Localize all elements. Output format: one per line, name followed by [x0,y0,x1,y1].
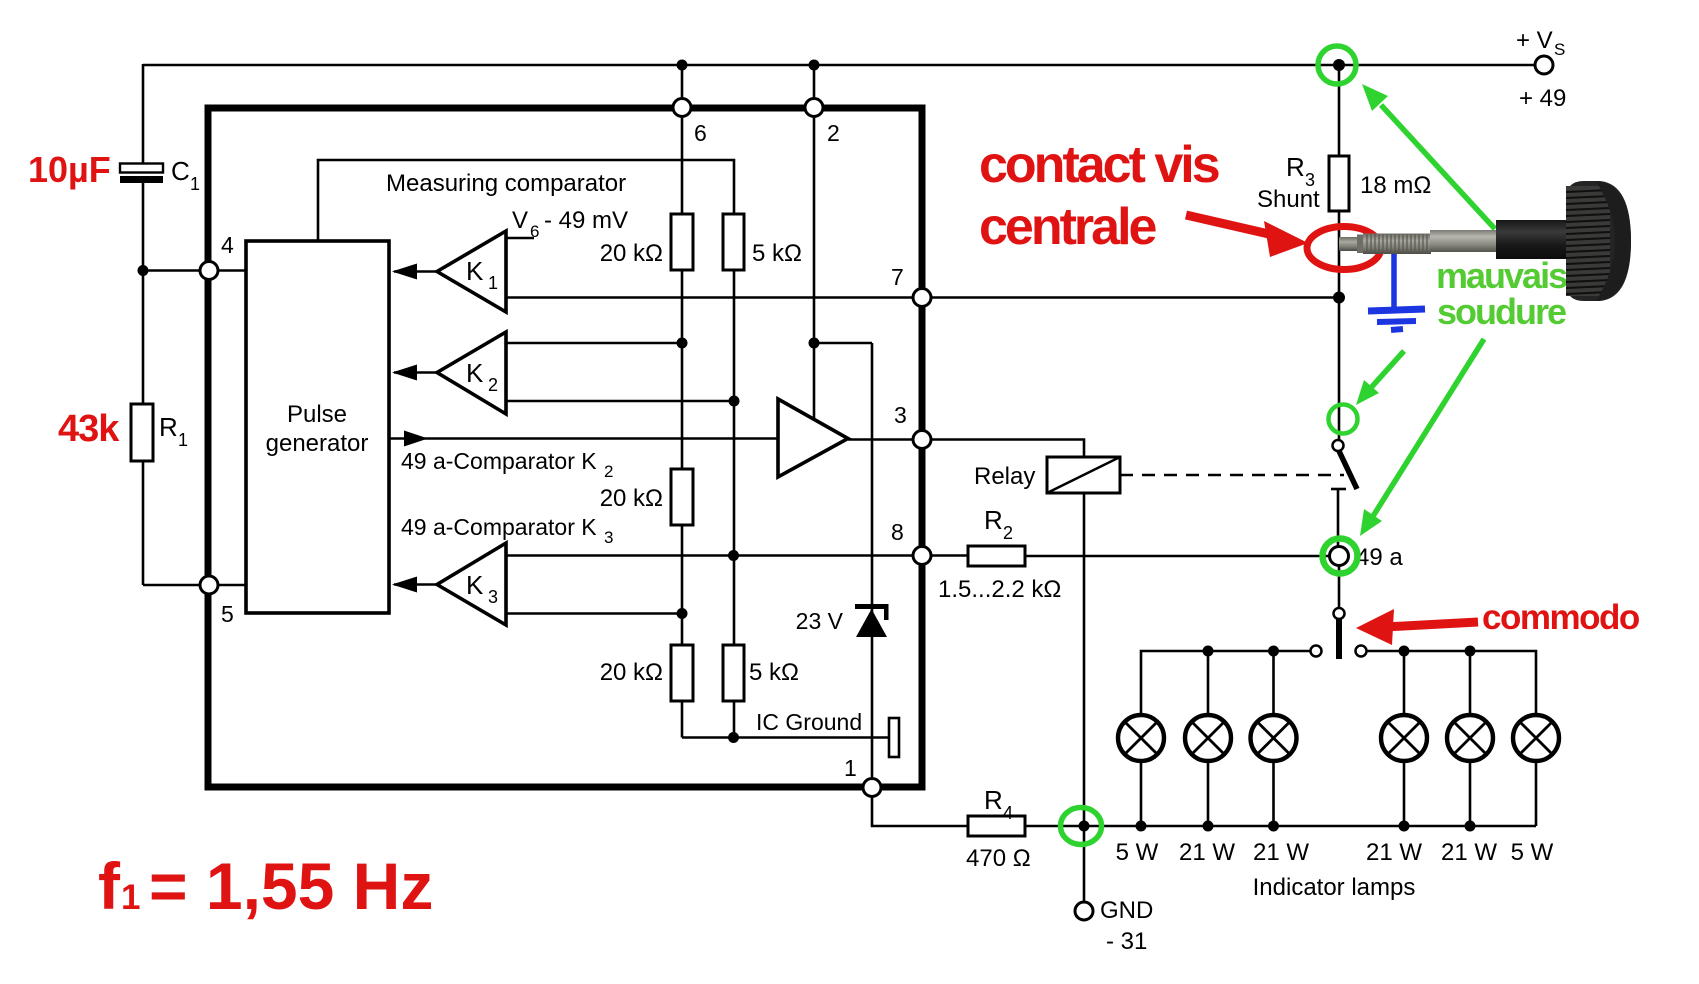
resistor R3 shunt [1329,156,1349,211]
svg-text:6: 6 [694,120,707,146]
pin 8 [913,547,931,565]
wire K1 output to pin7 and node [506,296,1339,299]
svg-text:5 W: 5 W [1511,839,1554,866]
switch S1 pivot [1333,440,1344,451]
svg-text:1: 1 [121,878,140,917]
wire IC ground rail [682,736,889,739]
designator K2 [466,358,498,395]
junction lamp3 top [1268,646,1279,657]
svg-text:R: R [159,412,178,442]
green circle top node [1318,46,1356,84]
svg-text:mauvaise: mauvaise [1436,255,1585,296]
svg-text:2: 2 [604,462,613,481]
wire pulse generator output [389,437,778,440]
resistor R1 [131,404,153,461]
wire K2 input [394,371,437,374]
dashed relay link [1120,474,1344,477]
svg-text:commodo: commodo [1482,598,1640,637]
svg-text:centrale: centrale [979,198,1157,256]
red arrow contact [1186,215,1308,257]
svg-text:f: f [98,849,121,923]
commodo contact right [1356,646,1367,657]
junction IC ground rail [728,732,739,743]
svg-text:Shunt: Shunt [1257,186,1320,213]
resistor 20k C [671,645,693,701]
junction lamp2 bottom [1203,821,1214,832]
wire bottom rail R4 to lamps [1025,825,1536,828]
svg-text:7: 7 [891,264,904,290]
wire K3 lower input [506,612,682,615]
svg-text:S: S [1554,40,1565,59]
junction pin2 top rail [809,60,820,71]
annotation contact vis centrale (red) [979,136,1219,256]
wire K1 input [394,270,437,273]
lamp L4 21W [1381,715,1427,761]
green ring 49a [1323,539,1358,574]
junction lamp5 top [1465,646,1476,657]
svg-text:3: 3 [604,528,613,547]
lamp L3 cross [1257,722,1290,755]
svg-text:21 W: 21 W [1253,839,1309,866]
terminal +Vs [1535,56,1553,74]
svg-text:20 kΩ: 20 kΩ [600,659,663,686]
svg-text:3: 3 [894,402,907,428]
wire pin2 tap to zener branch [814,342,872,345]
svg-text:2: 2 [1003,523,1013,543]
resistor 5k B [723,645,744,701]
pulse generator box [246,241,389,613]
designator C1 [171,156,200,194]
lamp L1 5W [1118,715,1164,761]
svg-text:5 kΩ: 5 kΩ [749,659,799,686]
wire 20k chain [681,269,684,470]
junction lamp1 bottom [1136,821,1147,832]
wire K2 lower input [506,400,734,403]
wire C1 to R1 [142,182,145,405]
switch blade upper [1339,451,1357,489]
pulse output arrowhead [404,431,428,447]
screw threaded section [1363,234,1431,255]
commodo blade [1336,619,1342,659]
wire pin2 vertical [813,65,816,343]
svg-text:4: 4 [221,232,234,258]
lamp L2 cross [1192,722,1225,755]
junction lamp rail GND branch [1079,821,1090,832]
wire node5 horizontal [143,584,246,587]
svg-text:18 mΩ: 18 mΩ [1360,172,1431,199]
green arrow to mid switch [1368,351,1404,391]
wire R2 to 49a [1025,555,1333,558]
wire zener branch vertical [871,343,874,788]
svg-text:21 W: 21 W [1366,839,1422,866]
svg-text:5 W: 5 W [1116,839,1159,866]
zener diode 23V [855,604,889,637]
designator R2 [984,505,1013,543]
pin 7 [913,289,931,307]
svg-text:5: 5 [221,601,234,627]
comparator K3 [437,543,506,625]
IC thick border [208,108,922,787]
lamp L4 cross [1388,722,1421,755]
junction C1-R1 tap node 4 [138,265,149,276]
wire top supply rail [143,64,1535,67]
green arrow long to 49a [1370,339,1484,521]
screw head dome [1596,181,1631,301]
svg-text:6: 6 [530,222,539,241]
pin 3 [913,431,931,449]
wire left vertical to C1 [142,64,145,164]
label 49 a-Comparator K2 [401,448,613,481]
output buffer triangle [778,399,848,477]
wire K2 upper input [506,342,682,345]
svg-text:20 kΩ: 20 kΩ [600,485,663,512]
junction pin7 shunt node [1333,292,1345,304]
svg-text:R: R [984,785,1003,815]
terminal GND -31 [1075,902,1093,920]
resistor 5k A [723,214,744,270]
designator R1 [159,412,188,450]
lamp L5 cross [1454,722,1487,755]
wire pin8 line K3 upper [506,554,968,557]
wire buffer output to pin3 to relay [848,440,1084,459]
svg-text:20 kΩ: 20 kΩ [600,240,663,267]
lamp L2 21W [1185,715,1231,761]
svg-text:- 31: - 31 [1106,928,1147,955]
green annotations [1061,46,1496,845]
lamp L1 cross [1125,722,1158,755]
wire K1 reference stub [506,237,534,240]
junction lamp5 bottom [1465,821,1476,832]
commodo switch pivot [1334,608,1345,619]
wire shunt node vertical [1338,65,1341,157]
svg-text:49 a: 49 a [1356,544,1403,571]
svg-text:23 V: 23 V [796,608,844,634]
svg-text:Measuring comparator: Measuring comparator [386,170,626,197]
svg-text:Pulse: Pulse [287,401,347,428]
svg-text:generator: generator [266,430,369,457]
pin 1 [863,779,881,797]
junction +Vs shunt node [1333,59,1345,71]
svg-text:1: 1 [844,755,857,781]
comparator K2 [437,332,506,414]
green ellipse bottom junction [1061,808,1102,845]
pin 5 [200,576,218,594]
svg-text:2: 2 [827,120,840,146]
screw collar [1496,220,1569,259]
wire switch fixed contact [1331,488,1346,491]
pin 2 [805,99,823,117]
svg-text:1: 1 [488,273,498,293]
svg-text:21 W: 21 W [1179,839,1235,866]
svg-text:= 1,55 Hz: = 1,55 Hz [149,849,433,923]
wire pin1 to bottom rail [872,788,968,826]
blue bad-solder mark [1368,246,1425,330]
junction K3 lower 20k [677,608,688,619]
wire 5k chain [733,269,736,646]
svg-text:- 49 mV: - 49 mV [544,207,628,234]
annotation f1 = 1,55 Hz (red) [98,849,433,923]
wire lamps top rail right [1366,651,1536,715]
svg-text:10µF: 10µF [28,149,111,190]
junction lamp4 top [1399,646,1410,657]
label 49 a-Comparator K3 [401,514,613,547]
svg-text:5 kΩ: 5 kΩ [752,240,802,267]
designator K1 [466,256,498,293]
wire pin6 vertical [681,65,684,215]
screw tip [1339,237,1363,251]
green arrow to top node [1381,105,1495,229]
resistor R2 [968,546,1025,566]
junction lamp2 top [1203,646,1214,657]
resistor R4 [968,816,1025,836]
wire 49a to commodo [1338,565,1341,609]
svg-text:R: R [1286,152,1305,182]
commodo contact left [1311,646,1322,657]
resistor 20k A [671,214,693,270]
screw photo [1339,181,1631,301]
wire relay to GND terminal [1083,492,1086,911]
screw smooth shaft [1430,230,1498,252]
svg-text:Relay: Relay [974,463,1035,490]
wire lamps top rail left [1141,651,1311,715]
svg-text:1: 1 [190,174,200,194]
svg-text:K: K [466,570,484,600]
red annotation texts [28,136,1640,923]
junction K2 lower 5k [729,396,740,407]
junction pin6 top rail [677,60,688,71]
terminal 49a [1330,547,1349,566]
label V6 - 49 mV [512,207,628,241]
svg-text:470 Ω: 470 Ω [966,845,1031,872]
wire R1 to pin5 corner [142,460,145,585]
svg-text:soudure: soudure [1437,291,1566,332]
junction pin8 5k [728,550,739,561]
svg-text:K: K [466,256,484,286]
net label +Vs [1516,27,1565,59]
svg-text:1: 1 [178,430,188,450]
svg-text:49 a-Comparator K: 49 a-Comparator K [401,514,597,540]
svg-text:IC Ground: IC Ground [756,709,862,735]
red arrow commodo [1356,609,1478,645]
lamp L5 21W [1447,715,1493,761]
wire node4 horizontal [143,269,246,272]
lamp L6 5W [1513,715,1559,761]
junction pin2 branch [809,338,820,349]
junction lamp3 bottom [1268,821,1279,832]
svg-text:3: 3 [488,587,498,607]
junction K2 upper 20k [677,338,688,349]
svg-text:+ V: + V [1516,27,1553,54]
svg-text:K: K [466,358,484,388]
svg-text:R: R [984,505,1003,535]
svg-text:4: 4 [1003,803,1013,823]
svg-text:Indicator lamps: Indicator lamps [1253,874,1416,901]
wire K3 input [394,583,437,586]
junction lamp4 bottom [1399,821,1410,832]
svg-text:contact vis: contact vis [979,136,1219,194]
svg-text:GND: GND [1100,897,1153,924]
green circle mid switch [1329,405,1358,434]
capacitor C1 [120,164,163,173]
wire feedback pulse-gen top [318,160,734,241]
pin 6 [673,99,691,117]
pin 4 [200,262,218,280]
svg-text:C: C [171,156,190,186]
svg-text:1.5...2.2 kΩ: 1.5...2.2 kΩ [938,576,1061,603]
svg-text:2: 2 [488,375,498,395]
lamp L3 21W [1251,715,1297,761]
relay [1047,457,1120,493]
lamp L6 cross [1520,722,1553,755]
wire lamp stubs [1207,651,1210,715]
designator R4 [984,785,1013,823]
svg-text:49 a-Comparator K: 49 a-Comparator K [401,448,597,474]
IC ground electrode [889,718,899,757]
svg-text:21 W: 21 W [1441,839,1497,866]
svg-text:43k: 43k [58,408,120,450]
designator K3 [466,570,498,607]
red ellipse contact [1307,227,1381,270]
svg-text:8: 8 [891,519,904,545]
wire buffer top feed [813,343,816,420]
svg-text:V: V [512,207,528,234]
svg-text:+ 49: + 49 [1519,85,1566,112]
designator R3 [1286,152,1315,190]
screw knurled head [1566,181,1631,301]
resistor 20k B [671,469,693,525]
comparator K1 [437,231,506,312]
